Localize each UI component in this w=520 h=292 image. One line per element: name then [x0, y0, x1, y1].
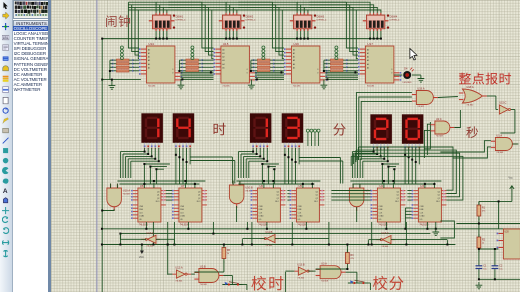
svg-text:A0: A0: [222, 49, 224, 52]
svg-text:A4: A4: [292, 63, 294, 66]
svg-text:LOAD: LOAD: [180, 215, 186, 218]
terminal bubbles: [190, 46, 193, 60]
svg-text:U15: U15: [222, 42, 228, 46]
svg-text:DSW2: DSW2: [245, 15, 253, 19]
wire display-to-counter mesh right: [352, 148, 419, 184]
DIP switch DSW3: [289, 13, 326, 31]
wire bottom buses: [100, 228, 519, 246]
IC U4 74LS190: [370, 184, 405, 226]
svg-text:U18:A: U18:A: [466, 85, 473, 89]
inverter U13:C: [376, 231, 395, 248]
wire 555 links: [456, 222, 520, 288]
resistor pack RN: [111, 59, 133, 72]
svg-text:A5: A5: [292, 66, 294, 69]
svg-text:74LS04: 74LS04: [265, 245, 273, 247]
label 校时: [251, 276, 266, 291]
svg-text:U4: U4: [379, 184, 383, 188]
svg-text:1k: 1k: [226, 253, 229, 255]
wire bundles top: [128, 2, 380, 58]
panel/sheet divider: [48, 0, 51, 292]
wire display-to-counter mesh left: [120, 148, 234, 184]
svg-text:74L585: 74L585: [222, 86, 230, 88]
svg-text:74L585: 74L585: [366, 86, 374, 88]
resistor R2: [477, 234, 486, 252]
svg-text:A4: A4: [366, 63, 368, 66]
svg-text:A4: A4: [222, 63, 224, 66]
wire counter interconnect: [102, 80, 411, 292]
label 秒: [466, 126, 478, 138]
svg-text:74LS21: 74LS21: [417, 106, 424, 108]
svg-text:A2: A2: [292, 56, 294, 59]
svg-text:RLO: RLO: [275, 201, 279, 203]
svg-text:74LS08: 74LS08: [122, 194, 130, 196]
IC U16 74LS48: [284, 42, 327, 88]
svg-text:A0: A0: [366, 49, 368, 52]
wire nest U3 to gates: [351, 147, 463, 200]
7-segment display minute units (3): [281, 113, 302, 148]
svg-text:LOAD: LOAD: [258, 215, 264, 218]
resistor R3: [345, 249, 354, 267]
resistor R1: [477, 202, 486, 220]
ground: [432, 229, 439, 236]
svg-text:C1: C1: [483, 264, 487, 267]
svg-text:DIPSW_4: DIPSW_4: [316, 20, 326, 22]
wire left feed: [101, 79, 141, 83]
svg-text:A3: A3: [147, 59, 149, 62]
wire left vertical x102: [101, 39, 103, 80]
svg-text:74L585: 74L585: [147, 86, 155, 88]
overview preview window: [13, 0, 50, 19]
svg-text:U13:C: U13:C: [381, 231, 388, 235]
svg-text:U3: U3: [420, 184, 424, 188]
svg-text:U19:A: U19:A: [417, 86, 424, 90]
object selector panel: [13, 0, 48, 292]
terminal bubbles: [334, 46, 337, 60]
OR gate U18:A: [458, 85, 486, 107]
svg-text:A0: A0: [292, 49, 294, 52]
capacitor C1: [475, 262, 487, 272]
svg-text:74L585: 74L585: [292, 86, 300, 88]
svg-text:U2:A: U2:A: [321, 261, 327, 265]
svg-text:U2:C: U2:C: [435, 117, 441, 121]
svg-text:U10:A: U10:A: [122, 189, 129, 193]
svg-text:U6: U6: [259, 184, 263, 188]
IC U6 74LS190: [250, 184, 285, 226]
power VCC down arrow: [138, 244, 143, 258]
svg-text:Q0: Q0: [198, 192, 200, 194]
svg-text:U8: U8: [139, 184, 143, 188]
inverter U12:A: [172, 266, 191, 283]
svg-text:A5: A5: [222, 66, 224, 69]
AND gate U2:A: [315, 261, 345, 282]
wire top bus bundle: [0, 0, 1, 1]
svg-text:A3: A3: [222, 59, 224, 62]
svg-text:RLO: RLO: [314, 201, 318, 203]
ground: [475, 282, 482, 289]
svg-text:Q0: Q0: [157, 192, 159, 194]
AND gate U2:C: [430, 117, 454, 138]
svg-text:U2:B: U2:B: [199, 264, 205, 268]
svg-text:Q2: Q2: [315, 198, 317, 200]
wire LED to ground: [412, 74, 421, 76]
svg-text:10u: 10u: [483, 268, 486, 270]
svg-text:LOAD: LOAD: [378, 215, 384, 218]
svg-text:U10:B: U10:B: [245, 186, 252, 190]
instruments list: [13, 26, 48, 92]
svg-text:Vcc: Vcc: [508, 175, 513, 179]
resistor pack RN: [325, 59, 347, 72]
svg-text:A2: A2: [366, 56, 368, 59]
svg-text:RLO: RLO: [155, 201, 159, 203]
svg-text:LOAD: LOAD: [419, 215, 425, 218]
sheet border line: [95, 0, 97, 292]
svg-text:U5: U5: [298, 184, 302, 188]
svg-text:Q1: Q1: [396, 195, 398, 197]
DIP switch DSW2: [218, 13, 255, 31]
capacitor C2: [491, 262, 503, 272]
svg-text:74LS08: 74LS08: [435, 136, 443, 138]
svg-text:74LS08: 74LS08: [321, 280, 329, 282]
svg-text:LOAD: LOAD: [297, 215, 303, 218]
svg-text:Q1: Q1: [437, 195, 439, 197]
AND gate U2:B: [194, 264, 223, 286]
IC U17 74LS48: [358, 42, 401, 88]
DIP switch DSW4: [362, 13, 399, 31]
svg-text:A1: A1: [366, 52, 368, 55]
terminal bubbles: [261, 46, 264, 60]
wire IC link lines: [180, 71, 358, 80]
svg-text:Q0: Q0: [276, 192, 278, 194]
instruments header: [13, 20, 50, 28]
svg-text:74LS08: 74LS08: [199, 284, 207, 286]
svg-text:U13:A: U13:A: [146, 231, 153, 235]
mouse cursor: [409, 49, 416, 60]
svg-text:U12:A: U12:A: [175, 266, 182, 270]
svg-text:LED-RED: LED-RED: [402, 82, 411, 84]
svg-text:74LS04: 74LS04: [175, 280, 183, 282]
left mode toolbar: [0, 0, 13, 292]
svg-text:Q0: Q0: [396, 192, 398, 194]
svg-text:Q2: Q2: [396, 198, 398, 200]
svg-text:LBL: LBL: [2, 36, 8, 40]
wire U3 left pin feeds: [404, 208, 411, 230]
wire ground drop: [250, 79, 252, 82]
wire pack feeds: [108, 60, 357, 79]
svg-text:10u: 10u: [499, 268, 502, 270]
svg-text:A1: A1: [222, 52, 224, 55]
wire loop bottom mid: [440, 221, 454, 238]
svg-text:Q2: Q2: [198, 198, 200, 200]
svg-text:DIPSW_4: DIPSW_4: [175, 20, 185, 22]
svg-text:A5: A5: [147, 66, 149, 69]
svg-text:A4: A4: [147, 63, 149, 66]
svg-text:Q0: Q0: [315, 192, 317, 194]
inverter U15:C: [499, 102, 510, 114]
svg-text:74LS190: 74LS190: [297, 224, 307, 226]
svg-text:47k: 47k: [350, 258, 354, 260]
svg-text:U11:B: U11:B: [265, 230, 272, 234]
wire bottom links: [120, 234, 448, 292]
svg-text:74LS32: 74LS32: [466, 105, 473, 107]
svg-text:74LS190: 74LS190: [138, 224, 148, 226]
svg-text:74LS04: 74LS04: [146, 246, 154, 248]
label 时: [213, 123, 225, 135]
wire counter top rails: [117, 180, 441, 188]
svg-text:A2: A2: [222, 56, 224, 59]
inverter U13:A: [141, 231, 160, 248]
svg-text:47k: 47k: [481, 211, 485, 213]
svg-text:U1:A: U1:A: [496, 133, 502, 137]
svg-text:A5: A5: [366, 66, 368, 69]
svg-text:A3: A3: [292, 59, 294, 62]
svg-text:A1: A1: [147, 52, 149, 55]
svg-text:DSW1: DSW1: [175, 15, 183, 19]
IC U20 NE555: [496, 229, 520, 259]
svg-text:1k: 1k: [481, 243, 484, 245]
svg-text:RLO: RLO: [196, 201, 200, 203]
resistor R6: [222, 244, 231, 262]
svg-text:Q0: Q0: [437, 192, 439, 194]
IC U8 74LS190: [131, 184, 166, 226]
svg-text:Q1: Q1: [198, 195, 200, 197]
svg-text:U17: U17: [367, 42, 373, 46]
label 校分: [372, 276, 386, 290]
svg-text:D4: D4: [404, 66, 408, 70]
svg-text:Q2: Q2: [437, 198, 439, 200]
AND gate U9:A: [349, 183, 373, 210]
wire right gate links: [424, 96, 514, 158]
svg-text:Q2: Q2: [276, 198, 278, 200]
svg-text:A0: A0: [147, 49, 149, 52]
push button: [222, 282, 242, 286]
svg-text:U13:B: U13:B: [297, 263, 304, 267]
svg-text:Q1: Q1: [157, 195, 159, 197]
svg-text:A1: A1: [292, 52, 294, 55]
ground: [320, 82, 327, 89]
IC U14 74LS48: [139, 42, 182, 88]
wire right column: [478, 200, 511, 229]
wire nest to U19: [356, 93, 430, 160]
svg-text:LOAD: LOAD: [139, 215, 145, 218]
svg-text:U14: U14: [148, 42, 154, 46]
wire horizontal bus y38.6: [102, 38, 382, 40]
AND gate U10:A: [106, 183, 130, 210]
wire ground drop: [179, 79, 181, 82]
terminal bubbles: [120, 46, 123, 60]
7-segment display hour units (4): [172, 113, 193, 148]
svg-text:R3: R3: [350, 254, 354, 257]
svg-text:C2: C2: [499, 264, 503, 267]
terminal bubbles row: [306, 129, 320, 146]
wire counter bottom drops: [145, 222, 436, 245]
svg-text:74LS04: 74LS04: [297, 277, 305, 279]
svg-text:A2: A2: [147, 56, 149, 59]
label 整点报时: [458, 73, 470, 85]
ground: [248, 82, 255, 89]
inverter U13:B: [294, 263, 313, 280]
svg-text:Q1: Q1: [315, 195, 317, 197]
svg-text:R2: R2: [481, 238, 485, 241]
label 闹钟: [106, 15, 117, 27]
LED D4: [402, 66, 413, 84]
IC U15 74LS48: [213, 42, 256, 88]
resistor pack RN: [181, 59, 203, 72]
wire DSW bottom drops: [155, 29, 382, 40]
inverter U11:B: [260, 230, 279, 247]
ground: [177, 82, 184, 89]
svg-text:DSW4: DSW4: [389, 15, 397, 19]
wire ground drop: [322, 79, 324, 82]
IC U7 74LS190: [172, 184, 207, 226]
wire U10A links: [101, 180, 360, 221]
wire display-to-counter mesh mid: [238, 148, 342, 184]
IC U5 74LS190: [289, 184, 324, 226]
svg-text:R1: R1: [481, 206, 485, 209]
svg-text:RLO: RLO: [436, 201, 440, 203]
7-segment display minute tens (1): [249, 113, 270, 148]
IC U3 74LS190: [411, 184, 446, 226]
svg-text:U15:C: U15:C: [499, 102, 506, 105]
7-segment display hour tens (1): [141, 113, 162, 148]
label 分: [333, 123, 345, 135]
wire U17 to LED: [393, 74, 401, 76]
svg-text:A: A: [2, 188, 7, 194]
DIP switch DSW1: [148, 13, 185, 31]
power arrow Vcc: [508, 175, 514, 201]
svg-text:U7: U7: [180, 184, 184, 188]
wire U1 inputs: [440, 141, 518, 158]
ground: [417, 75, 424, 82]
svg-text:74LS04: 74LS04: [381, 246, 389, 248]
svg-text:DSW3: DSW3: [316, 15, 324, 19]
AND gate U19:A: [411, 86, 437, 108]
svg-text:Q2: Q2: [157, 198, 159, 200]
AND gate U1:A: [490, 133, 516, 154]
svg-text:VCC: VCC: [138, 256, 143, 259]
svg-text:RLO: RLO: [395, 201, 399, 203]
svg-text:A3: A3: [366, 59, 368, 62]
resistor pack RN: [252, 59, 274, 72]
svg-text:U20: U20: [504, 230, 509, 233]
svg-text:R6: R6: [226, 249, 230, 252]
7-segment display second units (0): [401, 114, 422, 149]
svg-text:DIPSW_4: DIPSW_4: [245, 20, 255, 22]
7-segment display second tens (2): [370, 114, 391, 149]
push button: [347, 280, 367, 284]
svg-text:74LS08: 74LS08: [496, 152, 504, 154]
svg-text:Q1: Q1: [276, 195, 278, 197]
AND gate U10:B: [229, 180, 253, 207]
svg-text:DIPSW_4: DIPSW_4: [389, 20, 399, 22]
svg-text:U16: U16: [293, 42, 299, 46]
ground: [108, 82, 115, 89]
